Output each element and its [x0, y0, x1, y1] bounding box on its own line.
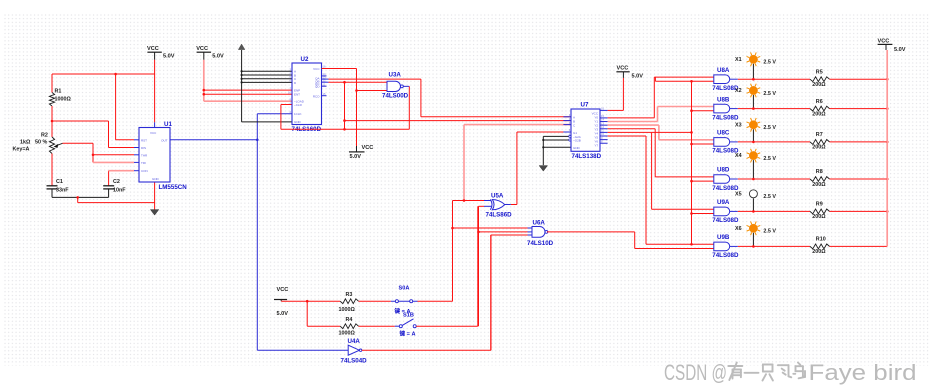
svg-text:~CLR: ~CLR	[294, 103, 303, 107]
svg-text:U6A: U6A	[533, 219, 546, 226]
svg-text:S1B: S1B	[403, 313, 414, 319]
svg-text:5.0V: 5.0V	[894, 47, 906, 53]
svg-text:CON: CON	[141, 169, 148, 173]
svg-text:U3A: U3A	[389, 71, 402, 78]
svg-text:12: 12	[601, 125, 604, 129]
svg-text:15: 15	[601, 114, 604, 118]
svg-text:RST: RST	[141, 138, 147, 142]
svg-text:U9A: U9A	[717, 199, 730, 206]
svg-text:R1: R1	[55, 89, 62, 95]
svg-text:200Ω: 200Ω	[812, 111, 826, 117]
svg-text:R10: R10	[816, 237, 826, 243]
svg-text:CSDN @: CSDN @	[664, 360, 727, 385]
svg-text:DIS: DIS	[141, 146, 146, 150]
svg-text:OUT: OUT	[161, 138, 168, 142]
svg-text:2.5 V: 2.5 V	[763, 125, 776, 131]
svg-text:2.5 V: 2.5 V	[763, 194, 776, 200]
svg-text:74LS08D: 74LS08D	[712, 114, 739, 121]
svg-text:200Ω: 200Ω	[812, 182, 826, 188]
svg-text:X5: X5	[735, 191, 742, 197]
svg-text:200Ω: 200Ω	[812, 82, 826, 88]
svg-text:VCC: VCC	[277, 287, 289, 293]
svg-text:74LS138D: 74LS138D	[572, 153, 602, 160]
svg-text:33nF: 33nF	[56, 188, 69, 194]
svg-text:R8: R8	[816, 169, 823, 175]
svg-text:VCC: VCC	[362, 145, 374, 151]
svg-text:10nF: 10nF	[113, 188, 126, 194]
svg-text:74LS04D: 74LS04D	[341, 358, 368, 365]
svg-text:16: 16	[601, 107, 604, 111]
svg-text:C2: C2	[113, 179, 120, 185]
svg-text:GND: GND	[152, 177, 160, 181]
svg-text:VCC: VCC	[150, 131, 157, 135]
svg-text:74LS00D: 74LS00D	[382, 92, 409, 99]
svg-text:U8D: U8D	[717, 167, 730, 174]
svg-text:1000Ω: 1000Ω	[339, 307, 356, 313]
svg-text:14: 14	[601, 118, 604, 122]
svg-text:2.5 V: 2.5 V	[763, 229, 776, 235]
svg-text:键 = A: 键 = A	[399, 329, 416, 337]
svg-text:X1: X1	[735, 57, 742, 63]
svg-text:U9B: U9B	[717, 234, 730, 241]
svg-text:200Ω: 200Ω	[812, 145, 826, 151]
svg-text:C1: C1	[56, 179, 63, 185]
svg-text:GND: GND	[294, 120, 302, 124]
svg-text:THR: THR	[141, 154, 148, 158]
svg-text:200Ω: 200Ω	[812, 214, 826, 220]
svg-text:10: 10	[288, 90, 291, 94]
svg-text:VCC: VCC	[617, 65, 629, 71]
svg-text:Key=A: Key=A	[13, 147, 30, 153]
svg-text:VCC: VCC	[196, 46, 208, 52]
svg-text:Y7: Y7	[594, 144, 598, 148]
svg-text:2.5 V: 2.5 V	[763, 91, 776, 97]
svg-text:10: 10	[601, 132, 604, 136]
svg-text:2.5 V: 2.5 V	[763, 60, 776, 66]
svg-text:13: 13	[601, 121, 604, 125]
svg-text:74LS08D: 74LS08D	[712, 217, 739, 224]
svg-text:VCC: VCC	[878, 39, 890, 45]
svg-text:50 %: 50 %	[35, 140, 47, 146]
svg-text:R2: R2	[41, 133, 48, 139]
svg-text:X3: X3	[735, 122, 742, 128]
svg-text:1kΩ: 1kΩ	[20, 140, 31, 146]
svg-text:U1: U1	[164, 121, 172, 128]
svg-text:RCO: RCO	[313, 94, 320, 98]
svg-text:5.0V: 5.0V	[632, 74, 644, 80]
svg-text:74LS08D: 74LS08D	[712, 252, 739, 259]
svg-text:5.0V: 5.0V	[212, 54, 224, 60]
svg-text:S0A: S0A	[399, 286, 410, 292]
svg-text:Faye bird: Faye bird	[809, 360, 917, 385]
svg-text:U8B: U8B	[717, 96, 730, 103]
svg-text:X2: X2	[735, 88, 742, 94]
svg-text:LM555CN: LM555CN	[159, 184, 188, 191]
svg-text:5.0V: 5.0V	[350, 154, 362, 160]
svg-text:R9: R9	[816, 202, 823, 208]
svg-text:15: 15	[323, 92, 326, 96]
svg-text:74LS10D: 74LS10D	[527, 240, 554, 247]
svg-text:16: 16	[323, 65, 326, 69]
svg-text:U7: U7	[581, 102, 589, 109]
svg-text:VCC: VCC	[147, 46, 159, 52]
svg-text:U8A: U8A	[717, 67, 730, 74]
svg-text:200Ω: 200Ω	[812, 249, 826, 255]
svg-text:1000Ω: 1000Ω	[339, 331, 356, 337]
svg-text:VCC: VCC	[313, 67, 320, 71]
svg-text:5.0V: 5.0V	[163, 54, 175, 60]
svg-text:R3: R3	[346, 292, 353, 298]
svg-text:1000Ω: 1000Ω	[55, 97, 72, 103]
svg-text:U2: U2	[301, 56, 309, 63]
svg-text:R6: R6	[816, 99, 823, 105]
svg-text:U8C: U8C	[717, 130, 730, 137]
svg-text:R5: R5	[816, 69, 823, 75]
svg-text:74LS86D: 74LS86D	[486, 211, 513, 218]
svg-text:TRI: TRI	[141, 161, 146, 165]
svg-text:~G2B: ~G2B	[573, 139, 581, 143]
svg-text:GND: GND	[573, 146, 581, 150]
svg-text:2.5 V: 2.5 V	[763, 156, 776, 162]
svg-text:12: 12	[323, 78, 326, 82]
svg-text:ENT: ENT	[294, 93, 300, 97]
svg-text:U4A: U4A	[348, 338, 361, 345]
svg-text:5.0V: 5.0V	[277, 311, 289, 317]
svg-text:X6: X6	[735, 226, 742, 232]
svg-text:1CLK: 1CLK	[294, 112, 302, 116]
svg-text:R7: R7	[816, 132, 823, 138]
svg-text:X4: X4	[735, 153, 742, 159]
svg-text:U5A: U5A	[491, 192, 504, 199]
svg-text:R4: R4	[346, 317, 353, 323]
